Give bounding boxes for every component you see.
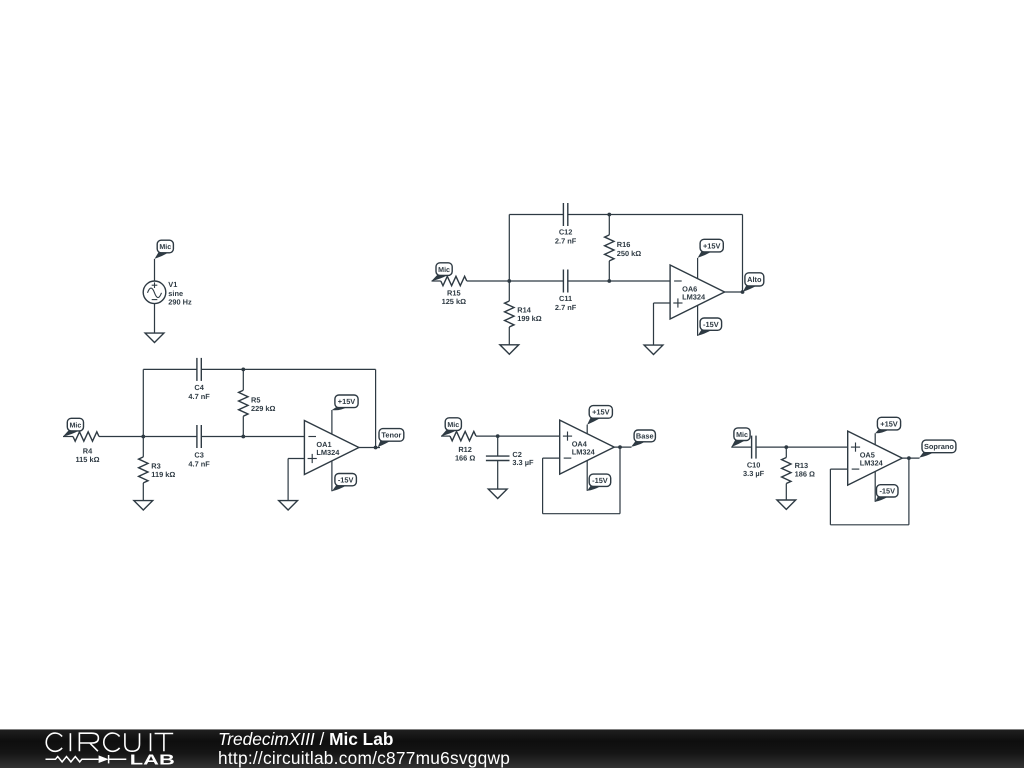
power flag -15V (OA4) bbox=[587, 474, 611, 491]
resistor R14 bbox=[505, 301, 514, 327]
U-Bass inverting input mark (-) bottom bbox=[564, 457, 572, 459]
wire node up to rail / down to R14 bbox=[508, 215, 510, 302]
svg-text:C3: C3 bbox=[194, 451, 203, 460]
svg-text:C4: C4 bbox=[194, 383, 204, 392]
wire Mic to R4 bbox=[63, 436, 73, 438]
wire Mic to R15 bbox=[432, 280, 441, 282]
resistor R5 bbox=[239, 390, 248, 416]
wire node to C3 bbox=[143, 436, 197, 438]
node C11/R16 junction bbox=[607, 279, 611, 283]
U-Tenor V- power pin bbox=[331, 461, 333, 491]
wire feedback up bbox=[742, 215, 744, 293]
voltage source V1 bbox=[143, 281, 166, 304]
op-amp U-Alto (OA6) body bbox=[670, 265, 725, 319]
U-Alto V+ power pin bbox=[697, 258, 699, 279]
wire R5 to main bbox=[242, 416, 244, 436]
wire R12 to op-amp bbox=[476, 435, 560, 437]
U-Bass non-inverting input mark (+) top bbox=[563, 432, 572, 441]
resistor R12 bbox=[450, 431, 476, 440]
wire rail left segment bbox=[509, 214, 563, 216]
wire R16 to main bbox=[608, 261, 610, 281]
wire node to C2 bbox=[497, 436, 499, 456]
wire C10 to op-amp bbox=[756, 446, 848, 448]
resistor R3 bbox=[139, 457, 148, 483]
power flag -15V (OA5) bbox=[875, 485, 898, 502]
resistor R15 bbox=[441, 276, 467, 285]
power flag +15V (OA1) bbox=[332, 395, 358, 410]
svg-text:+15V: +15V bbox=[338, 397, 356, 406]
U-Tenor non-inverting input mark (+) bottom bbox=[308, 454, 317, 463]
ground (OA1 +) bbox=[279, 501, 298, 510]
capacitor C4 bbox=[197, 358, 201, 381]
svg-text:119 kΩ: 119 kΩ bbox=[151, 470, 175, 479]
ground (R13) bbox=[777, 500, 796, 509]
svg-text:+15V: +15V bbox=[703, 241, 721, 250]
svg-text:Mic: Mic bbox=[69, 421, 81, 429]
net flag Soprano bbox=[919, 440, 956, 458]
wire C3 to op-amp bbox=[201, 436, 304, 438]
CircuitLab logo bbox=[0, 729, 190, 768]
svg-text:229 kΩ: 229 kΩ bbox=[251, 404, 275, 413]
svg-text:125 kΩ: 125 kΩ bbox=[442, 297, 466, 306]
capacitor C12 bbox=[563, 203, 567, 226]
U-Alto non-inverting input mark (+) bottom bbox=[673, 298, 682, 307]
wire feedback bottom bbox=[543, 513, 620, 515]
net flag Mic (Alto) bbox=[432, 263, 453, 281]
node C3/R5 junction bbox=[241, 435, 245, 439]
svg-text:+15V: +15V bbox=[592, 408, 610, 417]
wire + input down bbox=[287, 459, 289, 501]
logo resistor-diode symbol bbox=[46, 755, 127, 763]
net flag Mic (Bass) bbox=[441, 418, 461, 436]
node B1 (R12/C2 junction) bbox=[496, 434, 500, 438]
node T1 (R4/R3/C3 junction) bbox=[141, 435, 145, 439]
wire + input left bbox=[654, 302, 671, 304]
svg-text:LM324: LM324 bbox=[682, 292, 706, 301]
op-amp U-Soprano (OA5) body bbox=[848, 431, 903, 485]
op-amp U-Bass (OA4) body bbox=[560, 420, 615, 474]
svg-text:Mic: Mic bbox=[736, 431, 748, 439]
wire node up to rail / down to R3 bbox=[142, 369, 144, 457]
wire output bbox=[725, 291, 744, 293]
wire node to C11 bbox=[509, 280, 563, 282]
wire C11 to op-amp bbox=[568, 280, 670, 282]
U-Soprano non-inverting input mark (+) top bbox=[851, 443, 860, 452]
node output node (Alto) bbox=[741, 290, 745, 294]
svg-text:LM324: LM324 bbox=[860, 458, 884, 467]
svg-text:-15V: -15V bbox=[338, 475, 354, 484]
wire R13 to ground bbox=[785, 484, 787, 501]
resistor R4 bbox=[73, 432, 99, 441]
net flag Alto bbox=[743, 273, 764, 292]
U-Soprano V+ power pin bbox=[874, 433, 876, 444]
wire + input down bbox=[653, 303, 655, 345]
svg-text:Mic: Mic bbox=[447, 421, 459, 429]
node rail/R16 top junction bbox=[607, 213, 611, 217]
footer url bbox=[218, 748, 510, 769]
svg-text:3.3 µF: 3.3 µF bbox=[743, 469, 765, 478]
ground (R14) bbox=[500, 345, 519, 354]
net flag Tenor bbox=[378, 429, 404, 447]
wire rail left segment bbox=[143, 368, 197, 370]
wire output bbox=[614, 446, 631, 448]
svg-text:290 Hz: 290 Hz bbox=[168, 297, 192, 306]
power flag +15V (OA5) bbox=[875, 417, 900, 433]
svg-text:2.7 nF: 2.7 nF bbox=[555, 303, 577, 312]
resistor R16 bbox=[605, 235, 614, 261]
capacitor C3 bbox=[197, 425, 201, 448]
capacitor C11 bbox=[563, 270, 567, 293]
ground (V1) bbox=[145, 333, 164, 342]
ground (OA6 +) bbox=[644, 345, 663, 354]
wire feedback up bbox=[375, 369, 377, 447]
wire rail to R16 bbox=[608, 215, 610, 235]
wire R3 to ground bbox=[142, 483, 144, 501]
net flag Mic (Tenor) bbox=[63, 418, 84, 436]
svg-text:Soprano: Soprano bbox=[924, 442, 954, 451]
node A1 (R15/R14/C11 junction) bbox=[507, 279, 511, 283]
ground (C2) bbox=[488, 489, 507, 498]
footer title bbox=[218, 729, 393, 750]
power flag +15V (OA4) bbox=[587, 406, 612, 425]
logo word CIRCUIT (thin stroke letters) bbox=[46, 733, 173, 751]
wire R15 to node bbox=[467, 280, 510, 282]
capacitor C10 bbox=[752, 436, 756, 459]
wire - input left bbox=[830, 468, 847, 470]
power flag -15V (OA1) bbox=[332, 474, 357, 492]
U-Soprano V- power pin bbox=[874, 471, 876, 501]
svg-text:Base: Base bbox=[636, 432, 654, 441]
U-Bass V+ power pin bbox=[586, 425, 588, 434]
U-Alto inverting input mark (-) top bbox=[674, 280, 682, 282]
wire Mic to C10 bbox=[731, 446, 751, 448]
wire feedback left down bbox=[829, 469, 831, 525]
wire + input left bbox=[288, 458, 304, 460]
wire node to R13 bbox=[785, 447, 787, 457]
wire feedback up to output bbox=[619, 447, 621, 514]
svg-text:199 kΩ: 199 kΩ bbox=[517, 314, 541, 323]
resistor R13 bbox=[782, 458, 791, 484]
svg-text:2.7 nF: 2.7 nF bbox=[555, 237, 577, 246]
wire - input left bbox=[543, 457, 560, 459]
node S1 (C10/R13 junction) bbox=[784, 445, 788, 449]
svg-text:Mic: Mic bbox=[438, 266, 450, 274]
wire output bbox=[359, 447, 380, 449]
svg-text:-15V: -15V bbox=[879, 487, 895, 496]
svg-text:LAB: LAB bbox=[130, 753, 175, 768]
wire rail to R5 bbox=[242, 369, 244, 390]
svg-text:Alto: Alto bbox=[747, 275, 762, 284]
power flag +15V (OA6) bbox=[698, 239, 724, 258]
wire R4 to node bbox=[99, 436, 143, 438]
wire feedback up to output bbox=[908, 458, 910, 525]
svg-text:-15V: -15V bbox=[703, 320, 719, 329]
node output node (Soprano) bbox=[907, 456, 911, 460]
node output node (Tenor) bbox=[374, 446, 378, 450]
net flag Mic (V1) bbox=[155, 240, 174, 259]
svg-text:-15V: -15V bbox=[592, 476, 608, 485]
svg-text:186 Ω: 186 Ω bbox=[795, 470, 815, 479]
U-Bass V- power pin bbox=[586, 460, 588, 490]
U-Alto V- power pin bbox=[697, 305, 699, 335]
svg-text:LM324: LM324 bbox=[316, 448, 340, 457]
wire R14 to ground bbox=[508, 327, 510, 345]
wire V1 bottom bbox=[154, 304, 156, 334]
node rail/R5 top junction bbox=[241, 368, 245, 372]
svg-text:4.7 nF: 4.7 nF bbox=[188, 392, 210, 401]
svg-text:250 kΩ: 250 kΩ bbox=[617, 249, 641, 258]
svg-text:Mic: Mic bbox=[159, 243, 171, 251]
svg-text:C11: C11 bbox=[559, 294, 572, 303]
svg-text:115 kΩ: 115 kΩ bbox=[75, 455, 99, 464]
footer bar bbox=[0, 729, 1024, 768]
svg-text:LM324: LM324 bbox=[572, 447, 596, 456]
svg-text:+15V: +15V bbox=[880, 419, 898, 428]
wire rail right segment bbox=[201, 368, 375, 370]
U-Tenor V+ power pin bbox=[331, 410, 333, 434]
wire Mic to R12 bbox=[441, 435, 450, 437]
U-Soprano inverting input mark (-) bottom bbox=[852, 468, 860, 470]
wire feedback left down bbox=[542, 458, 544, 514]
svg-text:C12: C12 bbox=[559, 228, 573, 237]
wire output bbox=[902, 457, 919, 459]
node output node (Bass) bbox=[618, 445, 622, 449]
wire V1 top bbox=[154, 259, 156, 281]
wire feedback bottom bbox=[830, 524, 909, 526]
U-Tenor inverting input mark (-) top bbox=[308, 436, 316, 438]
svg-text:Tenor: Tenor bbox=[381, 431, 401, 440]
ground (R3) bbox=[134, 501, 153, 510]
op-amp U-Tenor (OA1) body bbox=[304, 421, 359, 475]
power flag -15V (OA6) bbox=[698, 318, 722, 336]
svg-text:166 Ω: 166 Ω bbox=[455, 454, 475, 463]
svg-text:4.7 nF: 4.7 nF bbox=[188, 460, 210, 469]
wire C2 to ground bbox=[497, 461, 499, 490]
net flag Mic (Soprano) bbox=[731, 428, 750, 447]
wire rail right segment bbox=[568, 214, 743, 216]
net flag Base bbox=[631, 430, 655, 447]
capacitor C2 bbox=[486, 456, 510, 460]
svg-text:3.3 µF: 3.3 µF bbox=[512, 458, 534, 467]
